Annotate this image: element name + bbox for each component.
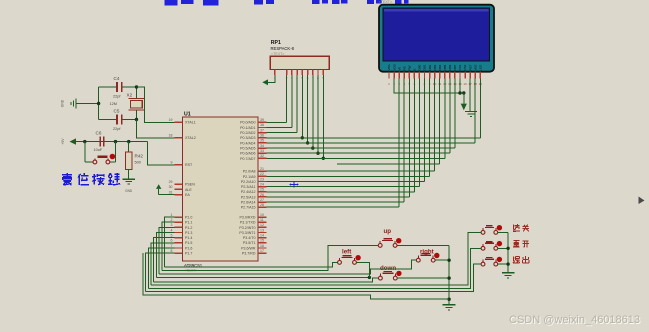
svg-text:P1.2: P1.2	[185, 226, 192, 230]
svg-text:DB1: DB1	[423, 64, 427, 70]
svg-text:14: 14	[260, 234, 264, 238]
svg-text:15: 15	[260, 239, 264, 243]
svg-text:5: 5	[171, 234, 173, 238]
svg-text:7: 7	[171, 244, 173, 248]
svg-text:down: down	[380, 265, 396, 272]
svg-text:P3.2/INT0: P3.2/INT0	[239, 226, 255, 230]
svg-text:11: 11	[260, 218, 264, 222]
svg-text:10: 10	[260, 213, 264, 217]
svg-text:GND: GND	[125, 189, 133, 193]
svg-text:3: 3	[171, 223, 173, 227]
svg-text:C6: C6	[96, 131, 102, 136]
svg-text:XTAL2: XTAL2	[185, 136, 196, 140]
svg-text:2: 2	[171, 218, 173, 222]
svg-text:30: 30	[169, 185, 173, 189]
svg-text:P0.2/AD2: P0.2/AD2	[240, 131, 255, 135]
svg-text:29: 29	[169, 180, 173, 184]
svg-text:up: up	[384, 228, 392, 235]
svg-text:P2.7/A15: P2.7/A15	[241, 206, 256, 210]
svg-text:P2.0/A8: P2.0/A8	[243, 170, 256, 174]
svg-text:P2.4/A12: P2.4/A12	[241, 190, 256, 194]
svg-text:P1.4: P1.4	[185, 236, 192, 240]
svg-text:10uF: 10uF	[94, 148, 103, 152]
svg-text:35: 35	[260, 139, 264, 143]
svg-text:17: 17	[260, 249, 264, 253]
svg-text:P1.0: P1.0	[185, 216, 192, 220]
svg-text:DB3: DB3	[433, 64, 437, 70]
svg-text:EA: EA	[185, 193, 190, 197]
svg-text:V0: V0	[397, 66, 401, 70]
svg-text:CS2: CS2	[463, 64, 467, 70]
svg-text:VEE: VEE	[473, 64, 477, 70]
svg-text:P0.4/AD4: P0.4/AD4	[240, 141, 255, 145]
svg-text:P0.1/AD1: P0.1/AD1	[240, 126, 255, 130]
svg-text:P2.6/A14: P2.6/A14	[241, 201, 256, 205]
svg-text:24: 24	[260, 182, 264, 186]
svg-text:X2: X2	[127, 93, 133, 98]
svg-text:P3.6/WR: P3.6/WR	[241, 246, 256, 250]
svg-text:P2.3/A11: P2.3/A11	[241, 185, 256, 189]
svg-text:CS1: CS1	[458, 64, 462, 70]
svg-text:DB7: DB7	[453, 64, 457, 70]
svg-text:RST: RST	[468, 64, 472, 70]
svg-text:39: 39	[260, 118, 264, 122]
svg-text:P3.7/RD: P3.7/RD	[242, 252, 256, 256]
svg-text:27: 27	[260, 198, 264, 202]
svg-text:CSDN @weixin_46018613: CSDN @weixin_46018613	[509, 314, 640, 326]
svg-text:RESPACK-8: RESPACK-8	[271, 46, 295, 51]
svg-text:P0.6/AD6: P0.6/AD6	[240, 152, 255, 156]
svg-text:1: 1	[171, 213, 173, 217]
svg-text:P0.5/AD5: P0.5/AD5	[240, 147, 255, 151]
svg-text:25: 25	[260, 188, 264, 192]
svg-text:8: 8	[171, 249, 173, 253]
svg-text:22: 22	[260, 172, 264, 176]
svg-text:P1.3: P1.3	[185, 231, 192, 235]
svg-text:<TEXT>: <TEXT>	[379, 0, 392, 4]
svg-text:DB0: DB0	[418, 64, 422, 70]
svg-text:P2.1/A9: P2.1/A9	[243, 175, 256, 179]
svg-text:VDD: VDD	[392, 63, 396, 70]
svg-text:9: 9	[171, 161, 173, 165]
svg-text:12M: 12M	[110, 102, 117, 106]
svg-text:13: 13	[260, 228, 264, 232]
svg-text:P1.5: P1.5	[185, 241, 192, 245]
svg-text:P3.5/T1: P3.5/T1	[243, 241, 256, 245]
svg-text:ALE: ALE	[185, 188, 192, 192]
svg-text:500: 500	[135, 161, 141, 165]
svg-text:P3.3/INT1: P3.3/INT1	[239, 231, 255, 235]
svg-text:P2.5/A13: P2.5/A13	[241, 195, 256, 199]
svg-text:<TEXT>: <TEXT>	[271, 52, 284, 56]
svg-text:P2.2/A10: P2.2/A10	[241, 180, 256, 184]
svg-text:22pf: 22pf	[113, 95, 121, 99]
svg-text:P3.0/RXD: P3.0/RXD	[240, 216, 256, 220]
svg-text:31: 31	[169, 190, 173, 194]
svg-text:34: 34	[260, 144, 264, 148]
svg-text:12: 12	[260, 223, 264, 227]
svg-text:VSS: VSS	[387, 64, 391, 70]
svg-text:DB4: DB4	[438, 64, 442, 70]
svg-text:P0.7/AD7: P0.7/AD7	[240, 157, 255, 161]
svg-text:RS: RS	[402, 66, 406, 70]
svg-text:LED: LED	[479, 64, 483, 71]
svg-text:P1.1: P1.1	[185, 221, 192, 225]
svg-text:DB6: DB6	[448, 64, 452, 70]
svg-text:18: 18	[169, 134, 173, 138]
svg-text:6: 6	[171, 239, 173, 243]
svg-text:XTAL1: XTAL1	[185, 121, 196, 125]
svg-text:37: 37	[260, 128, 264, 132]
svg-text:P1.7: P1.7	[185, 252, 192, 256]
svg-text:C4: C4	[114, 76, 120, 81]
svg-text:GND: GND	[61, 99, 65, 107]
svg-text:PSEN: PSEN	[185, 183, 195, 187]
svg-text:26: 26	[260, 193, 264, 197]
svg-text:19: 19	[169, 118, 173, 122]
svg-text:right: right	[420, 249, 434, 256]
svg-text:28: 28	[260, 203, 264, 207]
svg-text:DB5: DB5	[443, 64, 447, 70]
svg-text:left: left	[342, 249, 351, 256]
svg-text:DB2: DB2	[428, 64, 432, 70]
svg-text:R42: R42	[135, 154, 144, 159]
svg-text:23: 23	[260, 177, 264, 181]
svg-text:16: 16	[260, 244, 264, 248]
svg-text:16: 16	[463, 82, 467, 86]
svg-text:21: 21	[260, 167, 264, 171]
svg-text:E: E	[413, 68, 417, 70]
svg-text:RW: RW	[408, 65, 412, 70]
svg-text:C5: C5	[114, 109, 120, 114]
svg-text:4: 4	[171, 228, 173, 232]
svg-text:RST: RST	[185, 163, 193, 167]
svg-text:+5V: +5V	[61, 138, 65, 145]
svg-text:36: 36	[260, 134, 264, 138]
svg-text:38: 38	[260, 123, 264, 127]
svg-text:22pf: 22pf	[113, 127, 121, 131]
svg-text:32: 32	[260, 154, 264, 158]
svg-text:P3.1/TXD: P3.1/TXD	[240, 221, 256, 225]
svg-text:P0.0/AD0: P0.0/AD0	[240, 121, 255, 125]
svg-text:P0.3/AD3: P0.3/AD3	[240, 136, 255, 140]
svg-text:33: 33	[260, 149, 264, 153]
svg-text:P1.6: P1.6	[185, 246, 192, 250]
svg-text:P3.4/T0: P3.4/T0	[243, 236, 256, 240]
